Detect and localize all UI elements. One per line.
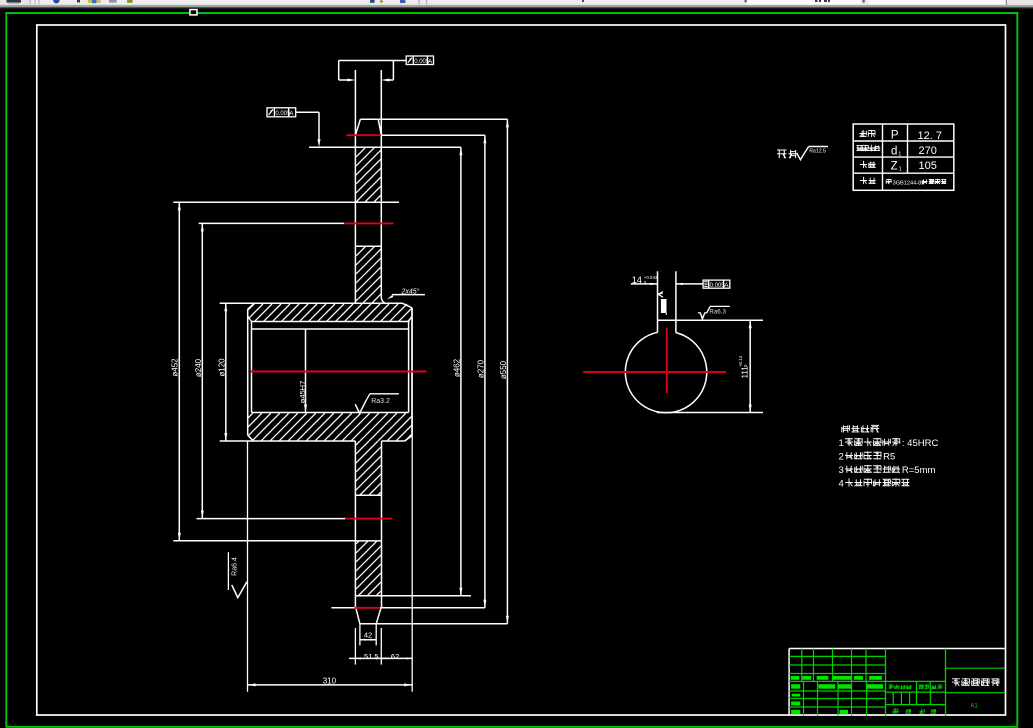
svg-text:4: 4 — [839, 479, 844, 490]
svg-text:Z: Z — [891, 161, 898, 173]
svg-text:62: 62 — [391, 652, 399, 661]
svg-text:ø452: ø452 — [171, 358, 180, 377]
svg-text:3GB1244-85: 3GB1244-85 — [893, 180, 925, 186]
svg-text:R=5mm: R=5mm — [902, 465, 936, 476]
svg-text:0.005: 0.005 — [710, 283, 726, 289]
svg-text:A: A — [289, 110, 294, 117]
svg-text:1: 1 — [898, 152, 901, 158]
svg-text:R5: R5 — [883, 452, 895, 463]
svg-text:Ra6.4: Ra6.4 — [231, 557, 238, 576]
svg-text:ø45H7: ø45H7 — [298, 381, 307, 404]
svg-text:42: 42 — [364, 631, 372, 640]
svg-text:ø550: ø550 — [499, 360, 508, 379]
svg-text:d: d — [891, 146, 897, 158]
svg-text:2x45°: 2x45° — [401, 288, 420, 296]
svg-text:ø240: ø240 — [194, 358, 203, 377]
svg-text:Ra6.3: Ra6.3 — [709, 309, 726, 316]
svg-text:3: 3 — [839, 465, 844, 476]
svg-text:P: P — [891, 130, 899, 142]
svg-text:270: 270 — [919, 145, 937, 157]
svg-text:A1: A1 — [970, 703, 978, 709]
svg-text:ø120: ø120 — [218, 358, 227, 377]
svg-text:1: 1 — [899, 167, 902, 173]
svg-text:51.5: 51.5 — [364, 652, 379, 661]
svg-text:1: 1 — [839, 438, 844, 449]
svg-text:105: 105 — [919, 160, 937, 172]
svg-text:310: 310 — [323, 677, 337, 686]
svg-text:A: A — [724, 282, 729, 289]
svg-text:ø270: ø270 — [477, 359, 486, 378]
svg-text:Ra3.2: Ra3.2 — [371, 398, 390, 405]
svg-text:A: A — [428, 58, 433, 65]
svg-text:2: 2 — [839, 452, 844, 463]
svg-text:Ra12.5: Ra12.5 — [809, 149, 826, 155]
svg-text:14: 14 — [632, 275, 642, 285]
svg-text:ø462: ø462 — [452, 358, 461, 377]
svg-text:: 45HRC: : 45HRC — [902, 438, 939, 449]
svg-text:12. 7: 12. 7 — [918, 130, 942, 142]
